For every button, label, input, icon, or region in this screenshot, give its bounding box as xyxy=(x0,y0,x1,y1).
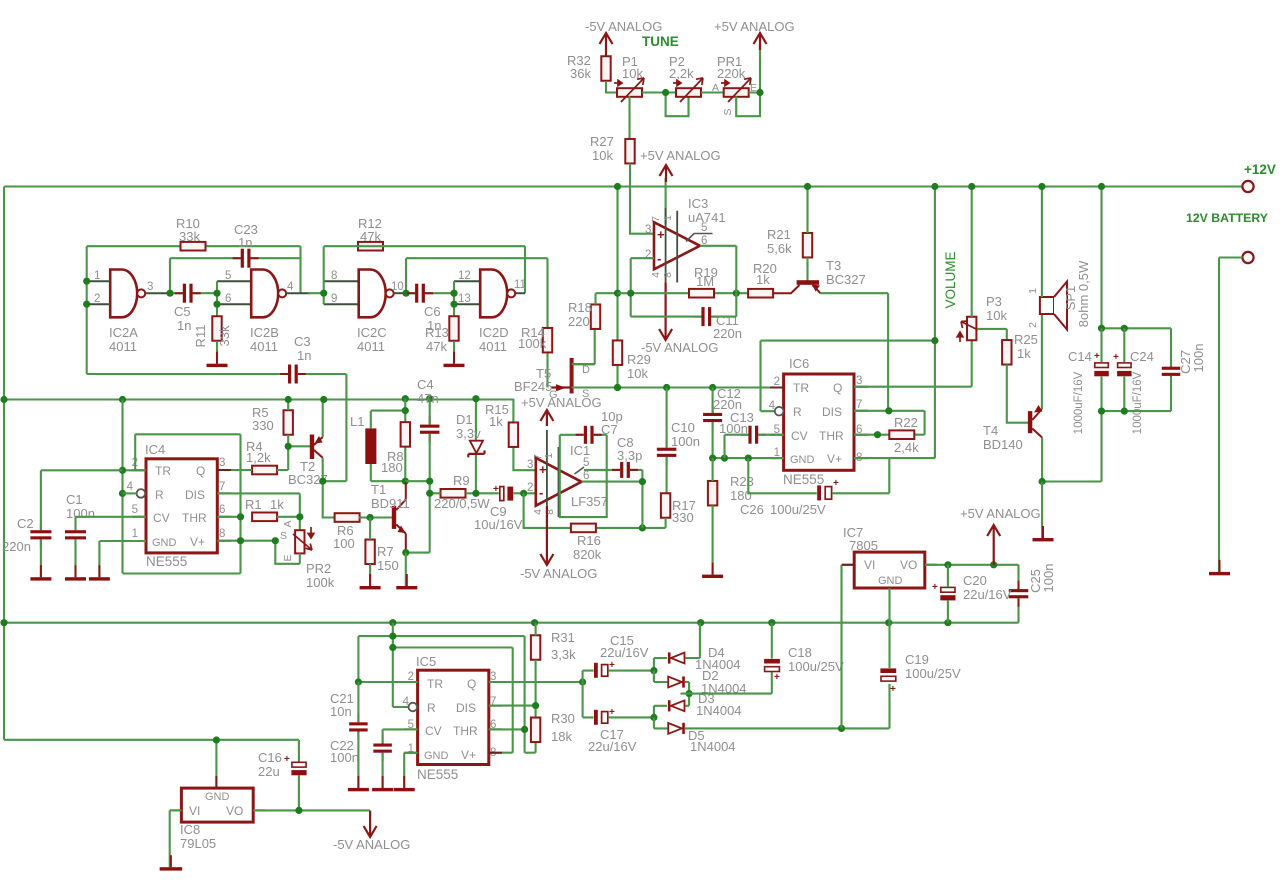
capacitor C6 xyxy=(407,284,433,303)
svg-text:1k: 1k xyxy=(489,414,503,429)
svg-text:C5: C5 xyxy=(174,304,191,319)
wire T1 emitter loop to C4 xyxy=(406,493,430,552)
svg-text:1: 1 xyxy=(132,528,138,540)
svg-text:10u/16V: 10u/16V xyxy=(474,517,523,532)
svg-text:1,2k: 1,2k xyxy=(246,450,271,465)
svg-text:D: D xyxy=(582,364,590,376)
wire C13 leads xyxy=(725,435,784,458)
wire bus to R15 xyxy=(513,399,535,471)
wire D5 output to IC7 xyxy=(654,684,890,729)
svg-text:E: E xyxy=(282,554,294,561)
wire feedback to R16 xyxy=(524,493,666,528)
ground C1 xyxy=(65,565,86,580)
svg-text:R13: R13 xyxy=(425,325,449,340)
svg-text:150: 150 xyxy=(377,558,399,573)
power -5V ANALOG arrow (top) xyxy=(600,33,613,56)
svg-text:47k: 47k xyxy=(360,229,381,244)
svg-text:10k: 10k xyxy=(986,308,1007,323)
power -5V ANALOG arrow (IC3) xyxy=(659,283,672,341)
ground battery xyxy=(1209,560,1230,575)
wire C6 to IC2D inputs xyxy=(454,281,480,304)
pin 5 stub IC3 xyxy=(686,234,713,242)
wire C24 leads xyxy=(1123,328,1125,411)
svg-text:4: 4 xyxy=(650,272,662,278)
resistor R10 xyxy=(181,242,206,251)
wire +12V bus top xyxy=(4,185,1242,187)
resistor R21 xyxy=(803,233,812,258)
svg-text:10: 10 xyxy=(391,281,404,293)
capacitor C18 electrolytic xyxy=(764,659,780,672)
svg-text:C6: C6 xyxy=(424,304,441,319)
wire R10 feedback net xyxy=(87,246,301,374)
svg-text:1: 1 xyxy=(1027,288,1039,294)
wire IC7 VO rail xyxy=(925,565,1019,623)
svg-text:-5V ANALOG: -5V ANALOG xyxy=(520,566,597,581)
svg-text:IC2C: IC2C xyxy=(357,325,387,340)
wire P3 wiper to R25 xyxy=(977,329,1007,340)
svg-text:T4: T4 xyxy=(983,423,998,438)
svg-text:+: + xyxy=(1094,351,1100,362)
svg-text:22u/16V: 22u/16V xyxy=(588,739,637,754)
capacitor C5 xyxy=(175,284,201,303)
wire IC5 GND pin xyxy=(404,753,417,788)
svg-text:GND: GND xyxy=(152,537,177,549)
svg-text:12: 12 xyxy=(458,270,471,282)
wire R8 branch xyxy=(404,399,406,482)
ground R13 xyxy=(444,352,465,367)
resistor R22 xyxy=(889,430,914,439)
resistor R15 xyxy=(509,422,518,447)
wire C20 leads xyxy=(947,565,949,623)
svg-text:8ohm 0,5W: 8ohm 0,5W xyxy=(1076,260,1091,327)
wire R17 bottom xyxy=(665,518,667,528)
wire C17 loop xyxy=(583,682,654,717)
svg-text:10k: 10k xyxy=(622,66,643,81)
svg-text:3: 3 xyxy=(645,224,651,236)
wire C1 leads xyxy=(76,517,147,577)
wire IC5 output Q xyxy=(489,681,583,683)
wire C2 leads xyxy=(41,470,123,577)
diode D2 xyxy=(668,676,685,687)
wire Q to R4 to T2 base xyxy=(217,469,288,471)
wire IC8 VI to ground xyxy=(170,810,182,867)
svg-text:33k: 33k xyxy=(217,325,232,346)
svg-text:R: R xyxy=(155,488,164,502)
resistor R7 xyxy=(365,540,374,565)
power -5V ANALOG arrow (IC1) xyxy=(540,506,553,565)
svg-text:100u/25V: 100u/25V xyxy=(905,666,961,681)
svg-text:R: R xyxy=(793,405,802,419)
svg-text:R1: R1 xyxy=(245,497,262,512)
svg-text:+: + xyxy=(774,672,780,683)
svg-text:5: 5 xyxy=(225,270,231,282)
capacitor C13 xyxy=(740,426,766,444)
svg-text:VI: VI xyxy=(189,804,200,818)
resistor R23 xyxy=(708,481,717,506)
svg-text:5,6k: 5,6k xyxy=(767,241,792,256)
svg-text:CV: CV xyxy=(791,429,808,443)
capacitor C25 xyxy=(1009,581,1029,607)
svg-text:R27: R27 xyxy=(590,134,614,149)
svg-text:10n: 10n xyxy=(330,704,352,719)
wire R9 leads xyxy=(430,492,499,494)
svg-text:+: + xyxy=(833,478,839,489)
svg-text:+: + xyxy=(609,660,615,671)
IC box IC5 NE555 xyxy=(418,670,489,764)
svg-text:V+: V+ xyxy=(461,748,476,762)
svg-text:6: 6 xyxy=(583,470,589,482)
svg-text:47n: 47n xyxy=(417,391,439,406)
svg-text:2: 2 xyxy=(527,482,533,494)
resistor R6 xyxy=(335,513,360,522)
svg-text:+5V ANALOG: +5V ANALOG xyxy=(960,506,1041,521)
svg-text:220/0,5W: 220/0,5W xyxy=(434,496,490,511)
svg-text:IC1: IC1 xyxy=(570,443,590,458)
svg-text:Q: Q xyxy=(196,464,205,478)
svg-text:R22: R22 xyxy=(894,415,918,430)
diode D1 zener xyxy=(475,399,477,494)
svg-text:Q: Q xyxy=(467,677,476,691)
gate IC2B xyxy=(251,270,278,318)
svg-text:1N4004: 1N4004 xyxy=(696,703,742,718)
svg-text:1: 1 xyxy=(94,270,100,282)
potentiometer P1 xyxy=(617,88,642,97)
svg-text:R31: R31 xyxy=(551,630,575,645)
wire +5V ANALOG to IC3 pin7 xyxy=(665,178,667,224)
svg-text:C1: C1 xyxy=(66,492,83,507)
wire D4 loop xyxy=(654,623,700,671)
wire IC2C output node xyxy=(394,292,407,294)
svg-text:1: 1 xyxy=(543,453,555,459)
svg-text:C7: C7 xyxy=(601,422,618,437)
inductor L1 xyxy=(365,428,376,464)
svg-text:2,4k: 2,4k xyxy=(894,440,919,455)
svg-text:C2: C2 xyxy=(17,516,34,531)
svg-text:820k: 820k xyxy=(573,547,602,562)
svg-text:100n: 100n xyxy=(330,750,359,765)
svg-text:2,2k: 2,2k xyxy=(669,66,694,81)
svg-text:22u/16V: 22u/16V xyxy=(963,587,1012,602)
op-amp IC3 uA741 xyxy=(654,222,700,269)
potentiometer P2 xyxy=(676,88,701,97)
power +5V ANALOG arrow (IC3) xyxy=(660,165,673,182)
capacitor C24 electrolytic xyxy=(1117,363,1132,376)
svg-text:R11: R11 xyxy=(193,325,208,348)
transistor T5 BF245 xyxy=(551,358,595,394)
wire C19 top xyxy=(888,623,890,668)
svg-text:CV: CV xyxy=(425,724,442,738)
wire IC8 VO net xyxy=(253,810,370,813)
resistor R14 xyxy=(543,328,552,353)
svg-text:330: 330 xyxy=(672,510,694,525)
svg-text:3: 3 xyxy=(219,457,225,469)
resistor R9 xyxy=(441,489,466,498)
svg-text:2: 2 xyxy=(774,376,780,388)
svg-text:C24: C24 xyxy=(1130,349,1154,364)
wire T4 to ground xyxy=(1041,482,1043,539)
svg-text:IC5: IC5 xyxy=(416,654,436,669)
svg-text:1M: 1M xyxy=(696,274,714,289)
wire PR2 S-E loop xyxy=(275,541,300,564)
gate IC2A xyxy=(110,270,137,318)
svg-text:R21: R21 xyxy=(767,227,791,242)
wire C14 leads xyxy=(1100,328,1102,411)
svg-text:IC6: IC6 xyxy=(789,356,809,371)
svg-text:C20: C20 xyxy=(963,573,987,588)
capacitor C1 xyxy=(65,522,86,548)
wire P1-P2 junction loop xyxy=(642,93,689,117)
svg-text:10k: 10k xyxy=(627,366,648,381)
svg-text:100u/25V: 100u/25V xyxy=(770,502,826,517)
resistor R30 xyxy=(531,718,540,743)
reset bubble IC6 pin4 xyxy=(775,407,784,416)
svg-text:-5V ANALOG: -5V ANALOG xyxy=(333,837,410,852)
resistor R8 xyxy=(401,422,410,447)
svg-text:8: 8 xyxy=(331,270,337,282)
svg-text:-: - xyxy=(539,485,543,500)
svg-text:1n: 1n xyxy=(297,348,311,363)
svg-text:GND: GND xyxy=(878,575,903,587)
svg-text:S: S xyxy=(722,108,734,115)
capacitor C20 electrolytic xyxy=(940,587,955,600)
diode D3 xyxy=(668,700,685,711)
svg-text:5: 5 xyxy=(583,457,589,469)
capacitor C10 xyxy=(657,439,677,465)
wire IC6 output Q to P3 xyxy=(854,341,972,387)
resistor R16 xyxy=(571,524,596,533)
svg-text:+: + xyxy=(493,484,499,495)
svg-text:Q: Q xyxy=(833,381,842,395)
IC box IC6 NE555 xyxy=(784,374,854,470)
svg-text:C10: C10 xyxy=(671,420,695,435)
svg-text:220: 220 xyxy=(568,314,590,329)
svg-text:7: 7 xyxy=(650,216,662,222)
resistor R27 xyxy=(625,139,634,164)
transistor T4 BD140 xyxy=(1028,405,1043,438)
capacitor C8 xyxy=(612,462,638,478)
svg-text:7805: 7805 xyxy=(849,538,878,553)
power +5V ANALOG arrow (IC7) xyxy=(987,525,1000,565)
IC box IC4 NE555 xyxy=(146,459,217,553)
ground R7 xyxy=(360,574,381,589)
trimmer PR2 xyxy=(295,530,304,553)
resistor R20 xyxy=(748,289,773,298)
svg-text:IC2D: IC2D xyxy=(479,325,509,340)
svg-text:33k: 33k xyxy=(179,229,200,244)
svg-text:BC327: BC327 xyxy=(826,272,866,287)
wire SP1 from bus xyxy=(1041,187,1043,298)
svg-text:22u/16V: 22u/16V xyxy=(600,645,649,660)
svg-text:100n: 100n xyxy=(1191,344,1206,373)
svg-text:4: 4 xyxy=(287,281,294,293)
resistor R25 xyxy=(1002,340,1011,365)
svg-text:1n: 1n xyxy=(177,318,191,333)
terminal +12V xyxy=(1242,181,1253,192)
ground C21 xyxy=(348,776,369,791)
svg-text:R18: R18 xyxy=(568,300,592,315)
svg-text:C16: C16 xyxy=(258,750,282,765)
wire bottom rail y=622.7 xyxy=(4,622,1019,624)
svg-text:+: + xyxy=(1113,352,1119,363)
wire IC3 pin2 net xyxy=(631,258,654,316)
svg-text:220n: 220n xyxy=(2,539,31,554)
wire C27 leads xyxy=(1170,328,1172,411)
pin stubs IC6 xyxy=(770,387,868,458)
capacitor C19 electrolytic xyxy=(880,668,896,681)
svg-text:DIS: DIS xyxy=(822,405,842,419)
wire inverting node y=293 net xyxy=(618,292,750,294)
svg-text:TR: TR xyxy=(793,381,809,395)
svg-text:100: 100 xyxy=(333,536,355,551)
capacitor C11 xyxy=(693,307,719,326)
wire IC2B output to IC2C inputs xyxy=(286,281,359,304)
wire P2 to PR1 xyxy=(701,91,724,93)
capacitor C16 electrolytic xyxy=(291,762,306,775)
svg-text:13: 13 xyxy=(458,293,471,305)
pin stubs IC5 xyxy=(404,682,502,753)
pin stubs IC1 xyxy=(546,430,548,506)
svg-text:IC2B: IC2B xyxy=(250,325,279,340)
svg-text:-: - xyxy=(657,251,661,266)
wire C4 leads xyxy=(405,399,429,494)
svg-text:NE555: NE555 xyxy=(783,472,824,487)
capacitor C27 xyxy=(1162,358,1181,384)
wire D2/D3 node to C18 xyxy=(681,672,772,694)
svg-text:C4: C4 xyxy=(417,377,434,392)
svg-text:1k: 1k xyxy=(270,497,284,512)
resistor R1 xyxy=(252,513,277,522)
speaker SP1 xyxy=(1040,282,1067,330)
wire IC6 V+ from +12V xyxy=(854,187,935,459)
wire R32 to P1 xyxy=(606,81,617,93)
svg-text:-5V ANALOG: -5V ANALOG xyxy=(585,19,662,34)
junction dots bottom rail xyxy=(389,619,951,626)
svg-text:VOLUME: VOLUME xyxy=(943,251,958,308)
power +5V ANALOG arrow (IC1) xyxy=(540,410,553,426)
wire D2 loop xyxy=(654,671,689,694)
wire IC7 VI feed xyxy=(842,565,855,729)
svg-text:3: 3 xyxy=(856,375,862,387)
svg-text:6: 6 xyxy=(219,504,225,516)
wire R25 to T4 base xyxy=(1007,365,1029,423)
wire T3 emitter to DIS node xyxy=(821,293,889,411)
svg-text:3: 3 xyxy=(147,281,153,293)
ground T1 xyxy=(396,574,417,589)
wire C12 leads xyxy=(712,388,714,459)
pin stubs IC8 xyxy=(170,776,265,810)
svg-text:11: 11 xyxy=(514,279,526,291)
wire R5 branch xyxy=(288,400,311,471)
svg-text:NE555: NE555 xyxy=(146,554,187,569)
wire mid bus y=399.5 xyxy=(4,398,513,400)
wire R13 to ground xyxy=(453,341,455,364)
svg-text:THR: THR xyxy=(819,429,844,443)
svg-text:C18: C18 xyxy=(788,645,812,660)
wire L1 leads xyxy=(371,411,406,482)
svg-text:8: 8 xyxy=(662,272,674,278)
potentiometer P3 xyxy=(967,317,976,341)
svg-text:BF245: BF245 xyxy=(514,379,552,394)
transistor T3 BC327 xyxy=(772,280,820,293)
wire R27 to IC3 pin3 xyxy=(630,164,654,234)
wire R23 to ground xyxy=(712,458,714,574)
svg-text:+12V: +12V xyxy=(1244,162,1276,177)
svg-text:9: 9 xyxy=(331,293,337,305)
diode D5 xyxy=(668,723,685,734)
svg-text:1k: 1k xyxy=(756,272,770,287)
svg-text:4011: 4011 xyxy=(357,339,385,354)
transistor T1 BD911 xyxy=(392,481,406,552)
ground C22 xyxy=(372,776,393,791)
svg-text:5: 5 xyxy=(701,222,707,234)
svg-text:3,3p: 3,3p xyxy=(617,448,642,463)
wire R31/R30 chain xyxy=(489,623,536,753)
svg-text:+: + xyxy=(284,754,290,765)
svg-text:D1: D1 xyxy=(456,412,473,427)
svg-text:2: 2 xyxy=(1027,322,1039,328)
svg-text:R16: R16 xyxy=(577,533,601,548)
wire T4 collector node xyxy=(1042,411,1101,481)
svg-text:BD140: BD140 xyxy=(983,437,1023,452)
wire C16 branch xyxy=(298,740,300,810)
svg-text:LF357: LF357 xyxy=(571,494,608,509)
wire IC4 GND pin xyxy=(99,541,146,577)
resistor R5 xyxy=(284,410,293,435)
wire R18 top to inverting net xyxy=(596,293,618,304)
svg-text:180: 180 xyxy=(381,460,403,475)
wire left rail xyxy=(3,187,5,740)
wire P1 wiper down to R27 xyxy=(628,96,630,139)
svg-text:IC4: IC4 xyxy=(145,442,165,457)
svg-text:+: + xyxy=(609,707,615,718)
resistor R32 xyxy=(601,56,610,81)
svg-text:PR2: PR2 xyxy=(306,561,331,576)
ground T4 xyxy=(1033,526,1054,541)
svg-text:TUNE: TUNE xyxy=(642,34,679,49)
svg-text:R23: R23 xyxy=(730,474,754,489)
svg-text:R25: R25 xyxy=(1014,332,1038,347)
wire D3 loop xyxy=(654,694,689,718)
svg-text:330: 330 xyxy=(252,418,274,433)
resistor R11 xyxy=(212,316,221,341)
svg-text:L1: L1 xyxy=(350,414,364,429)
resistor R31 xyxy=(531,635,540,660)
svg-text:-5V ANALOG: -5V ANALOG xyxy=(641,340,718,355)
svg-text:NE555: NE555 xyxy=(417,767,458,782)
wire C9 to pin2 xyxy=(513,492,535,494)
svg-text:1n: 1n xyxy=(238,235,252,250)
wire IC2A output node xyxy=(145,292,170,294)
svg-text:+: + xyxy=(539,462,547,477)
wire IC7 GND xyxy=(888,588,890,623)
svg-text:100n: 100n xyxy=(671,434,700,449)
svg-text:BD911: BD911 xyxy=(371,496,410,511)
svg-text:THR: THR xyxy=(182,511,207,525)
wire C23 feedback net xyxy=(170,258,301,293)
svg-text:IC2A: IC2A xyxy=(109,325,138,340)
svg-text:1N4004: 1N4004 xyxy=(690,739,736,754)
wire C22 leads xyxy=(383,729,418,788)
svg-text:C14: C14 xyxy=(1068,349,1092,364)
svg-text:TR: TR xyxy=(155,464,171,478)
trimmer PR1 xyxy=(724,88,749,97)
svg-text:100k: 100k xyxy=(306,575,335,590)
wire C15 loop xyxy=(583,671,654,682)
wire R11 to ground xyxy=(216,341,218,364)
svg-text:+: + xyxy=(932,582,938,593)
svg-text:100u/25V: 100u/25V xyxy=(788,659,844,674)
wire rail2 to IC8 xyxy=(215,740,217,788)
